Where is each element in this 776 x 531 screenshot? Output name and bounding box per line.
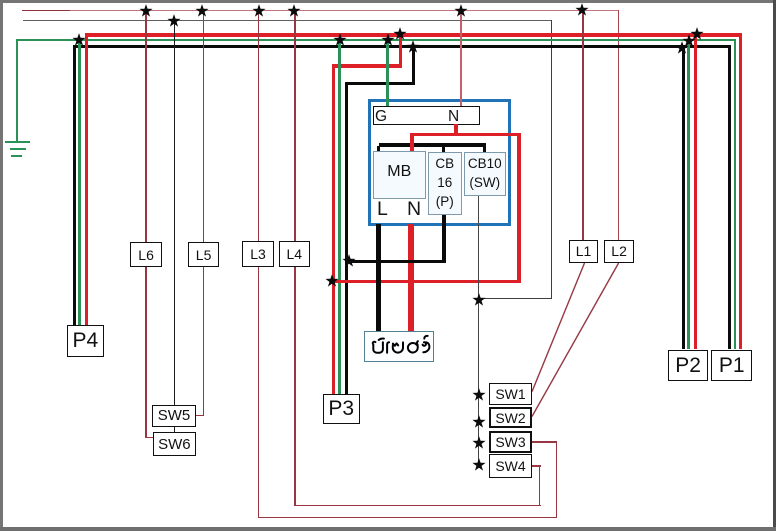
panel box consumer unit — [368, 99, 511, 226]
switch SW6 — [153, 432, 196, 456]
label L MB output — [377, 198, 388, 221]
wire N feed horizontal — [410, 133, 521, 136]
wire N bar red feed vertical — [454, 124, 458, 136]
wire G terminal green drop — [386, 39, 389, 107]
wire switch bus right vertical — [551, 20, 552, 299]
load L3 — [242, 241, 274, 266]
sara e — [387, 342, 389, 353]
meter box มิเตอร์ — [364, 331, 434, 363]
frame top border — [0, 0, 776, 3]
node L6 neutral tap — [138, 3, 154, 19]
ro rua — [423, 342, 430, 352]
wire L6 to SW6 link — [145, 437, 153, 438]
to tao — [393, 342, 403, 352]
switch SW3 — [489, 431, 532, 453]
wire N terminal drop — [460, 10, 461, 106]
terminal bar G N — [373, 106, 480, 124]
node P4 ground tap — [71, 32, 87, 48]
sara i — [379, 339, 384, 340]
wire CB10 top stub — [483, 146, 486, 153]
switch SW4 — [489, 454, 532, 478]
node P2 line tap — [689, 26, 705, 42]
node SW4 tap — [471, 457, 487, 473]
wire N path right vertical — [517, 133, 520, 283]
node red bus feed tap — [392, 26, 408, 42]
label N MB output — [407, 198, 421, 221]
wire ground wire vertical — [16, 39, 18, 142]
node L3 neutral tap — [251, 3, 267, 19]
wire P4 black wire — [73, 45, 76, 325]
wire L1 to SW1 diagonal — [525, 258, 591, 398]
wire SW3 route vertical — [556, 441, 557, 518]
switch SW2 — [489, 407, 532, 429]
wire L6 neutral drop — [145, 10, 147, 438]
node SW3 tap — [471, 435, 487, 451]
node N path junction — [324, 273, 340, 289]
wire black bus feed horizontal — [345, 82, 415, 85]
node SW5 line tap — [166, 13, 182, 29]
wire ground bus green — [16, 39, 736, 42]
node SW1 tap — [471, 387, 487, 403]
label N terminal — [448, 108, 459, 126]
wire P2 red wire — [694, 34, 697, 350]
o ang — [408, 341, 418, 352]
wire P1 green wire — [734, 40, 737, 349]
frame bottom border — [0, 527, 776, 531]
wire SW5 to L5 link — [196, 415, 205, 416]
wire N path bottom horizontal — [332, 280, 521, 283]
node panel N tap — [453, 3, 469, 19]
thai text มิเตอร์ — [370, 332, 432, 358]
wire SW3 route horizontal — [532, 441, 557, 442]
node black bus feed tap — [405, 39, 421, 55]
wire CB16 top stub — [442, 146, 445, 153]
node P3 ground tap — [332, 32, 348, 48]
load L5 — [188, 242, 219, 267]
node L1 neutral tap — [574, 2, 590, 18]
load L2 — [604, 240, 634, 264]
wire panel header bus — [379, 143, 487, 146]
wire neutral return bus black — [73, 45, 731, 48]
wire P4 red wire — [85, 33, 88, 325]
wire L3 bottom route horizontal — [258, 517, 557, 518]
switch SW1 — [489, 383, 532, 405]
breaker CB10 — [464, 152, 506, 196]
frame right border — [773, 0, 776, 531]
thanthakhat — [424, 336, 427, 339]
node P2 ground tap — [681, 33, 697, 49]
mo ma — [373, 342, 383, 353]
wire line bus L red — [85, 33, 742, 36]
wire L4 bottom route horizontal — [295, 505, 541, 506]
wire L3 neutral drop — [258, 10, 260, 518]
wire CB16 output vertical — [442, 215, 445, 264]
ground symbol — [5, 141, 30, 144]
plug P1 — [711, 350, 752, 382]
node SW2 tap — [471, 414, 487, 430]
breaker CB16 — [428, 152, 463, 216]
wire P4 green wire — [78, 39, 81, 325]
wire P1 red wire — [739, 34, 742, 349]
node L4 neutral tap — [286, 3, 302, 19]
wire MB N stub — [410, 133, 414, 152]
wire CB16 output horizontal — [345, 260, 446, 264]
wire switch bus to CB10 line — [478, 298, 552, 299]
wire SW4 route horizontal — [532, 465, 541, 466]
plug P2 — [668, 350, 709, 382]
node L5 neutral tap — [194, 3, 210, 19]
breaker MB — [373, 151, 426, 199]
label G — [375, 108, 387, 126]
wire L2 to SW2 diagonal — [525, 258, 625, 423]
wire red bus feed horizontal — [332, 64, 403, 67]
wire P2 green wire — [687, 40, 690, 349]
wire P2 black wire — [682, 46, 685, 349]
wire L5 neutral drop — [203, 10, 205, 416]
frame left border — [0, 0, 3, 531]
wire neutral drop to L2 — [618, 10, 620, 240]
wire red bus feed vertical — [399, 33, 402, 67]
wire L1 neutral drop — [582, 10, 584, 240]
plug P3 — [323, 394, 360, 424]
wire neutral bus N right segment — [70, 10, 620, 11]
wire P1 black wire — [728, 46, 731, 349]
load L1 — [569, 240, 598, 264]
switch SW5 — [152, 405, 195, 427]
load L4 — [279, 241, 310, 266]
wire L4 neutral drop — [294, 10, 296, 506]
load L6 — [130, 242, 162, 267]
wire black bus feed vertical — [412, 45, 415, 85]
wire SW4 route vertical — [539, 465, 540, 506]
node CB16 output junction — [341, 253, 357, 269]
node P2 neutral tap — [674, 40, 690, 56]
node panel G tap — [380, 32, 396, 48]
wire P3 black wire — [345, 82, 348, 394]
wire SW5 line drop — [174, 20, 175, 405]
wire neutral bus N left segment — [22, 10, 70, 11]
wire switch bus horizontal — [23, 20, 552, 22]
wire MB top stub — [377, 146, 380, 152]
node switch line junction — [471, 292, 487, 308]
wire P3 red wire — [332, 64, 335, 393]
wire meter N wire — [408, 224, 413, 331]
plug P4 — [67, 325, 104, 357]
wire SW5-SW6 link — [174, 427, 175, 433]
wire CB10 SW output line — [478, 196, 479, 467]
wire P3 green wire — [338, 39, 341, 394]
wire meter L wire — [376, 224, 381, 331]
